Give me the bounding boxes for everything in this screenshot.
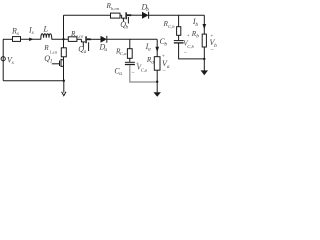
resistor R_b [202,34,206,47]
svg-text:s: s [12,60,14,66]
wire Da to Ia corner [107,38,157,40]
wire R1ca through Q1 to bottom rail [63,57,65,81]
wire node B down to RCa [129,39,131,48]
svg-text:−: − [210,48,214,54]
svg-text:s: s [32,30,34,36]
wire left ground shaft [63,81,65,93]
svg-text:s: s [17,31,19,37]
label Cb [160,37,168,48]
wire left vertical lower [2,61,4,81]
wire Qa to Da [87,38,101,40]
label Ib [192,17,199,28]
wire stem to RCb [178,15,180,27]
label Db [141,3,150,14]
resistor R_1,ca [61,48,66,57]
label Q1 [44,54,52,65]
resistor R_s [13,37,21,42]
wire node A up to top branch [63,15,65,39]
resistor R_a [154,57,160,70]
wire Db to top right corner [149,14,205,16]
wire node A down to R1ca [63,39,65,48]
resistor R_C,b [177,27,181,36]
label Rb [191,30,199,40]
current arrow Ia [155,47,159,52]
source Vs circle symbol [1,56,5,61]
svg-text:a: a [84,49,87,55]
label +VC,a- [131,61,148,76]
svg-text:b: b [146,7,149,13]
svg-text:a: a [151,60,154,66]
svg-text:b: b [126,24,129,30]
wire Ra down to mid ground [156,70,158,92]
label R1,ca [43,44,57,56]
label Vs [7,55,14,66]
svg-text:−: − [131,70,135,76]
svg-text:a: a [119,71,122,77]
resistor R_C,a [127,49,132,59]
wire from Vs top to Rs [3,38,13,40]
wire left vertical upper [2,39,4,56]
capacitor C_b plates [174,41,184,43]
label Ia [145,42,151,53]
wire gray from Ca bottom to node C [130,65,157,82]
label +Va- [161,53,169,73]
node A junction dot [62,38,64,40]
wire Qb to Db [128,14,142,16]
label RC,a [115,47,127,57]
wire RCa to Ca [129,58,131,62]
label Rb,on [106,2,120,12]
wire right corner down carrying Ib [203,15,205,34]
diode D_a triangle [101,36,107,43]
diode D_a cathode bar [106,36,108,43]
wire Rb down to right ground [203,47,205,71]
wire Ia corner down to Ra [156,39,158,56]
diode D_b triangle [142,12,149,19]
svg-text:1: 1 [50,59,53,65]
transistor Q_a symbol [81,36,90,51]
svg-text:a: a [104,47,107,53]
wire Cb down and right to node D [179,44,205,59]
label Da [99,42,108,53]
svg-text:+: + [186,33,190,39]
ground right filled arrow [201,70,208,75]
node bottom-left junction dot [63,80,65,82]
diode D_b cathode bar [148,12,150,19]
svg-text:b: b [214,43,217,49]
label +Vb- [210,34,218,54]
resistor R_a,ca [68,37,77,42]
svg-text:a: a [148,46,151,52]
transistor Q1 symbol [52,59,64,67]
svg-text:−: − [162,68,166,74]
wire Raca to Qa [77,38,82,40]
label Rs [11,27,19,38]
wire Rs to node A with inductor L coil [21,34,69,40]
label RC,b [163,20,176,30]
svg-text:a: a [167,64,170,70]
label Qa [78,45,86,56]
label Ra,ca [70,30,84,40]
label Ca [114,66,122,77]
svg-text:b: b [196,34,199,40]
label Is [28,26,34,37]
wire RCb to Cb [178,35,180,40]
label Qb [120,20,128,31]
svg-text:L: L [43,25,49,34]
transistor Q_b symbol [122,12,132,23]
label Ra [146,56,154,65]
wire Rbon to Qb [120,14,122,16]
capacitor C_a plates [125,62,135,64]
ground left open arrow [62,92,66,96]
node C junction dot [156,81,158,83]
label +VC,b- [183,33,194,56]
wire bottom rail [3,80,64,82]
wire top branch to Rbon [64,14,111,16]
resistor R_b,on [111,13,121,18]
ground mid filled arrow [154,92,161,97]
svg-text:−: − [183,50,187,56]
current arrow Is [29,38,33,42]
svg-text:b: b [164,41,167,47]
current arrow Ib [203,24,207,29]
svg-text:b: b [195,22,198,28]
node D junction dot [203,58,205,60]
